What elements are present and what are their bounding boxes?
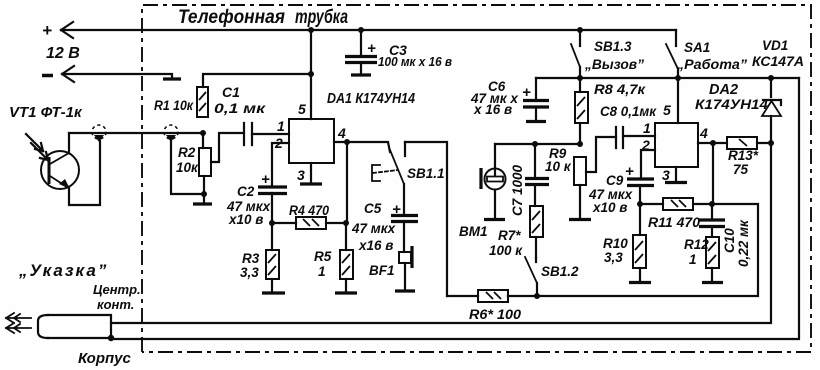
label BM1 <box>459 224 488 239</box>
svg-text:5: 5 <box>663 102 671 118</box>
ground R12 <box>702 281 723 284</box>
pin 5 label DA2 <box>663 102 671 118</box>
svg-text:Телефонная: Телефонная <box>178 7 285 28</box>
laser arrows out <box>6 313 31 333</box>
pin 3 label <box>297 167 305 183</box>
label R11 470 <box>648 215 701 230</box>
microphone BM1 <box>481 144 506 218</box>
resistor R4 <box>296 217 326 229</box>
label DA2 К174УН14 <box>695 82 768 112</box>
wire R4 to R5 node <box>326 222 346 224</box>
zener diode VD1 КС147А <box>762 78 781 143</box>
wire pin2 to C2 <box>272 143 289 186</box>
node R1-wire junction <box>308 71 314 77</box>
svg-text:C2: C2 <box>237 184 255 199</box>
pin 2 label <box>274 135 283 151</box>
svg-text:конт.: конт. <box>97 297 134 312</box>
pin 4 label <box>337 125 346 141</box>
switch SA1 <box>666 30 678 78</box>
node collector/R-divider <box>200 130 206 136</box>
node R8/R9 <box>577 141 583 147</box>
node C3 top <box>358 27 364 33</box>
svg-text:C5: C5 <box>364 201 382 216</box>
svg-text:К174УН14: К174УН14 <box>695 96 768 112</box>
svg-text:C1: C1 <box>222 84 240 100</box>
node R13/VD1 <box>768 140 774 146</box>
resistor R12 <box>706 237 719 281</box>
svg-text:R5: R5 <box>314 249 332 264</box>
resistor R8 <box>575 78 588 144</box>
op-amp DA2 К174УН14 <box>655 123 698 167</box>
svg-text:+: + <box>625 163 634 180</box>
svg-text:12 В: 12 В <box>46 45 80 62</box>
svg-text:+: + <box>261 171 270 188</box>
svg-text:3,3: 3,3 <box>240 265 259 280</box>
svg-text:С7 1000: С7 1000 <box>510 164 525 216</box>
switch SB1.3 <box>571 30 580 78</box>
capacitor C9 <box>625 163 654 204</box>
wire +12V rail <box>61 29 676 31</box>
node C9/R10/R11 <box>637 201 643 207</box>
label VD1 КС147А <box>752 38 804 69</box>
wire R9 tap to C8 <box>586 137 616 172</box>
svg-text:Корпус: Корпус <box>78 350 131 367</box>
label C2 47мкх х10в <box>226 184 271 227</box>
capacitor C3 <box>345 30 377 74</box>
ground R9 <box>569 218 591 221</box>
node R4/R5/pin4 column <box>343 220 349 226</box>
wire pin4 down to R4/R5 <box>346 142 348 223</box>
svg-text:+: + <box>392 201 401 218</box>
svg-text:„Вызов”: „Вызов” <box>584 57 644 72</box>
svg-text:1: 1 <box>689 252 697 267</box>
wire C8 to pin1 DA2 <box>623 135 655 137</box>
resistor R1 <box>197 87 208 117</box>
pin 1 label <box>277 118 285 134</box>
svg-text:1: 1 <box>277 118 285 134</box>
ground C3 <box>351 73 371 76</box>
supply arrow minus <box>42 66 74 82</box>
svg-text:VT1 ФТ-1к: VT1 ФТ-1к <box>9 104 83 121</box>
label Центр. конт. <box>93 282 141 312</box>
svg-text:1: 1 <box>318 264 326 279</box>
wire mic bus <box>495 143 580 145</box>
ground (R2/contact) <box>193 194 212 204</box>
svg-text:R8 4,7к: R8 4,7к <box>594 81 646 97</box>
resistor R13* <box>727 137 771 149</box>
svg-text:4: 4 <box>337 125 346 141</box>
svg-text:R3: R3 <box>242 251 260 266</box>
ground BM1 <box>484 218 505 221</box>
svg-text:5: 5 <box>298 101 306 117</box>
label SB1.2 <box>541 264 579 279</box>
svg-text:х16 в: х16 в <box>358 238 393 253</box>
resistor R10 <box>633 204 646 281</box>
label C10 0,22 мк (rotated) <box>722 219 751 267</box>
ground R10 <box>629 281 651 284</box>
svg-text:3: 3 <box>297 167 305 183</box>
node +rail/pin5 <box>308 27 314 33</box>
label C1 0,1 мк <box>214 84 266 116</box>
label C6 <box>470 79 518 117</box>
label R10 3,3 <box>603 236 628 265</box>
label Телефонная трубка <box>178 7 348 28</box>
label Корпус <box>78 350 131 367</box>
svg-text:100 мк х 16 в: 100 мк х 16 в <box>378 54 452 69</box>
svg-text:R10: R10 <box>603 236 628 251</box>
node VD1 top <box>768 75 774 81</box>
svg-text:„Работа”: „Работа” <box>676 57 747 72</box>
svg-text:0,22 мк: 0,22 мк <box>736 219 751 267</box>
phototransistor VT1 <box>41 133 100 205</box>
label BF1 <box>369 263 395 278</box>
label SB1.1 <box>407 166 445 181</box>
label C9 47мкх х10в <box>588 173 633 215</box>
svg-text:С10: С10 <box>722 228 737 253</box>
label R7* 100к <box>489 228 523 258</box>
ground C6 <box>526 120 546 123</box>
pin 3 label DA2 <box>662 167 670 183</box>
label R13* 75 <box>728 148 759 177</box>
wire pin3 to ground <box>310 163 312 183</box>
resistor R5 <box>340 223 353 292</box>
label R4 470 <box>289 203 329 218</box>
label R8 4,7к <box>594 81 646 97</box>
svg-text:3: 3 <box>662 167 670 183</box>
wire R2 tap to C1 <box>211 133 244 162</box>
svg-text:КС147А: КС147А <box>752 54 804 69</box>
node SB1.3 top <box>577 27 583 33</box>
svg-text:+: + <box>522 84 531 101</box>
pin 1 label DA2 <box>643 120 651 136</box>
capacitor C5 <box>391 184 418 252</box>
capacitor C6 <box>522 78 549 120</box>
switch SB1.2 <box>525 257 537 296</box>
svg-text:4: 4 <box>699 125 708 141</box>
wire minus to ground <box>63 74 172 77</box>
svg-text:SB1.2: SB1.2 <box>541 264 579 279</box>
svg-text:R6* 100: R6* 100 <box>469 307 522 322</box>
label „Указка” <box>18 261 108 280</box>
svg-text:+: + <box>42 21 52 40</box>
svg-text:R2: R2 <box>178 145 196 160</box>
svg-text:х 16 в: х 16 в <box>473 102 512 117</box>
svg-text:C8 0,1мк: C8 0,1мк <box>600 103 657 119</box>
svg-text:R12: R12 <box>684 237 709 252</box>
label R6* 100 <box>469 307 522 322</box>
resistor R6* <box>478 290 537 302</box>
contact dashed circle 2 <box>164 125 178 142</box>
wire R2 bottom to ground node <box>203 176 205 194</box>
wire pin4 to SB1.1 <box>334 142 390 152</box>
svg-text:SB1.1: SB1.1 <box>407 166 445 181</box>
capacitor C8 <box>616 127 623 148</box>
capacitor C1 <box>244 123 252 145</box>
light arrows into VT1 <box>26 134 48 160</box>
wire plus bus right corner down (корпус return) <box>111 78 799 339</box>
capacitor C7 <box>525 144 549 206</box>
svg-text:R7*: R7* <box>498 228 521 243</box>
label 12 В <box>46 45 80 62</box>
capacitor C10 <box>699 204 725 237</box>
label R1 10к <box>154 98 194 113</box>
resistor R3 <box>266 223 279 292</box>
wire DA2 pin2 to C9 <box>641 150 655 178</box>
svg-text:BF1: BF1 <box>369 263 395 278</box>
svg-text:75: 75 <box>733 162 749 177</box>
label R2 10к <box>176 145 199 175</box>
resistor R11 <box>640 198 712 210</box>
ground BF1 <box>395 289 415 292</box>
label C5 47мкх х16в <box>351 201 396 253</box>
capacitor C2 <box>258 171 287 194</box>
svg-text:х10 в: х10 в <box>228 212 263 227</box>
pin 2 label DA2 <box>641 137 650 153</box>
label R3 3,3 <box>240 251 260 280</box>
node C7 top <box>532 141 538 147</box>
contact (center pin) dashed circle 1 <box>92 125 106 142</box>
svg-text:VD1: VD1 <box>762 38 788 53</box>
svg-text:0,1 мк: 0,1 мк <box>214 100 266 116</box>
wire R1 top to +rail column <box>203 74 311 87</box>
svg-text:10к: 10к <box>176 160 199 175</box>
svg-text:C9: C9 <box>606 173 624 188</box>
node pin4 DA2 <box>710 140 716 146</box>
label SA1 „Работа” <box>676 40 747 72</box>
svg-text:R13*: R13* <box>728 148 759 163</box>
label C3 <box>378 42 452 69</box>
resistor R7* <box>530 206 543 258</box>
label R5 1 <box>314 249 332 279</box>
node SB1.3 bottom <box>577 75 583 81</box>
label C7 1000 (rotated) <box>510 164 525 216</box>
svg-text:1: 1 <box>643 120 651 136</box>
wire C2 bottom junction <box>272 193 296 223</box>
svg-text:трубка: трубка <box>295 7 348 28</box>
wire DA1 pin5 column <box>310 30 312 119</box>
svg-text:R11 470: R11 470 <box>648 215 701 230</box>
wire C6 top to bus <box>536 77 799 79</box>
svg-text:3,3: 3,3 <box>604 250 623 265</box>
wire pin4 DA2 to R13 <box>698 142 727 144</box>
wire pin4 column down <box>712 143 714 204</box>
svg-text:100 к: 100 к <box>489 243 523 258</box>
op-amp DA1 К174УН14 <box>289 119 334 163</box>
wire inner net to R11 node <box>537 204 758 296</box>
wire DA2 pin5 <box>677 78 679 123</box>
label C8 0,1мк <box>600 103 657 119</box>
label VT1 ФТ-1к <box>9 104 83 121</box>
wire VD1/R13 column down to центр.конт line <box>111 143 771 323</box>
+12V supply arrow + <box>42 21 73 40</box>
node C2/R4/R3 <box>269 220 275 226</box>
resistor R2 <box>199 133 211 176</box>
wire DA2 pin3 ground <box>665 167 687 183</box>
label SB1.3 „Вызов” <box>584 39 644 72</box>
label DA1 К174УН14 <box>327 90 416 107</box>
ground R3 <box>262 291 285 294</box>
ground R5 <box>335 291 357 294</box>
svg-text:DA1 К174УН14: DA1 К174УН14 <box>327 90 416 107</box>
wire C1 to pin1 <box>252 133 289 135</box>
node SA1 bottom <box>675 75 681 81</box>
svg-text:R1 10к: R1 10к <box>154 98 194 113</box>
dash-dot enclosure "Телефонная трубка" <box>142 5 811 352</box>
switch SB1.1 <box>372 142 405 184</box>
svg-text:Центр.: Центр. <box>93 282 141 297</box>
node корпус <box>108 335 114 341</box>
wire SB1.1 right contact <box>405 142 447 296</box>
pointer „Указка” body <box>38 315 111 338</box>
wire collector row <box>69 132 203 134</box>
label R9 10 к <box>545 146 572 174</box>
svg-text:R4 470: R4 470 <box>289 203 329 218</box>
wire R6 net: SB1.1 right down / R6 / SB1.2 / inner box <box>447 295 478 297</box>
node ground junction <box>201 191 207 197</box>
svg-text:х10 в: х10 в <box>592 200 627 215</box>
ground (minus rail) <box>163 77 181 80</box>
resistor R9 <box>574 157 586 218</box>
svg-text:SB1.3: SB1.3 <box>594 39 632 54</box>
pin 5 label <box>298 101 306 117</box>
node SB1.2 bottom <box>534 293 540 299</box>
svg-text:47 мкх: 47 мкх <box>351 221 396 236</box>
label R12 1 <box>684 237 709 267</box>
svg-text:ВМ1: ВМ1 <box>459 224 488 239</box>
node R11/C10/pin4col <box>709 201 715 207</box>
earphone BF1 <box>399 246 412 290</box>
svg-text:+: + <box>367 40 376 57</box>
wire contact2 branch to ground <box>171 141 204 194</box>
svg-text:10 к: 10 к <box>545 159 572 174</box>
ground DA1 pin3 <box>300 182 322 185</box>
svg-text:„Указка”: „Указка” <box>18 261 108 280</box>
pin 4 label DA2 <box>699 125 708 141</box>
node pin4 <box>344 139 350 145</box>
svg-text:SA1: SA1 <box>684 40 710 55</box>
